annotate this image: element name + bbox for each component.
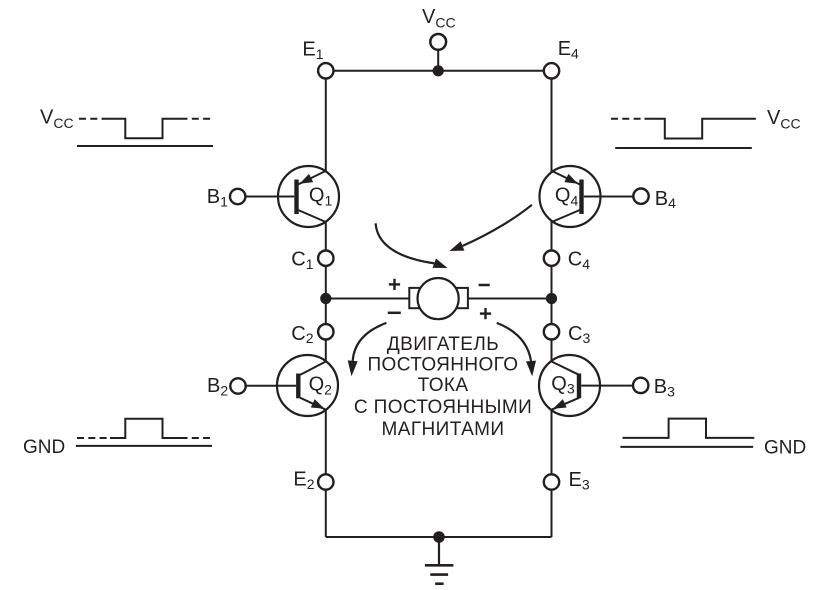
motor M1 body [418, 278, 459, 319]
annotation arrow curved left of text [348, 323, 387, 376]
terminal C2 [318, 324, 333, 339]
wire motor to right node [467, 298, 552, 300]
power Vcc terminal [430, 34, 446, 50]
annotation arrow upper left to motor [376, 223, 448, 268]
waveform GND right [620, 419, 754, 447]
wire left node to motor [326, 298, 410, 300]
svg-text:B2: B2 [207, 375, 228, 398]
junction ground node [433, 531, 445, 543]
motor M1 right brush tab [453, 288, 468, 308]
terminal B2 [230, 378, 245, 393]
wire right vertical Q3 to bottom rail through E3 [551, 410, 553, 537]
junction left motor node [320, 293, 331, 304]
junction Vcc node [433, 65, 444, 76]
svg-text:E2: E2 [293, 469, 314, 492]
wire left vertical Q2 to bottom rail through E2 [325, 410, 327, 537]
terminal B4 [633, 189, 648, 204]
wire Vcc stem [437, 50, 439, 71]
svg-text:VCC: VCC [40, 106, 74, 131]
svg-text:Q4: Q4 [555, 185, 579, 209]
terminal B3 [633, 378, 648, 393]
annotation arrow from Q4 to motor [450, 205, 532, 251]
svg-text:C1: C1 [291, 249, 313, 272]
svg-text:B3: B3 [654, 376, 675, 399]
svg-text:ТОКА: ТОКА [418, 375, 469, 396]
wire left vertical E1 to Q1 [325, 71, 327, 171]
waveform Vcc right [611, 119, 756, 148]
motor M1 left brush tab [409, 288, 423, 308]
svg-text:E1: E1 [302, 39, 323, 62]
wire right vertical E4 to Q4 [551, 71, 553, 172]
wire top rail E1 to E4 [326, 70, 552, 72]
waveform Vcc left [77, 119, 213, 146]
transistor Q4 [540, 166, 634, 227]
terminal C4 [544, 251, 559, 266]
svg-text:С ПОСТОЯННЫМИ: С ПОСТОЯННЫМИ [354, 397, 532, 418]
transistor Q1 [245, 166, 339, 227]
terminal E2 [318, 474, 333, 489]
svg-text:Q2: Q2 [309, 374, 333, 398]
label motor minus right [479, 284, 490, 287]
svg-text:ДВИГАТЕЛЬ: ДВИГАТЕЛЬ [387, 334, 499, 355]
wire bottom rail E2 to E3 [326, 536, 552, 538]
terminal E1 [318, 63, 333, 78]
wire left vertical Q1 to Q2 through C1 node and C2 [325, 222, 327, 362]
terminal E4 [544, 63, 559, 78]
svg-text:Q3: Q3 [551, 373, 575, 397]
svg-text:B4: B4 [655, 188, 676, 211]
svg-text:VCC: VCC [767, 107, 801, 132]
waveform GND left [76, 419, 212, 446]
svg-text:GND: GND [23, 437, 65, 458]
transistor Q3 [539, 355, 633, 416]
svg-text:E4: E4 [558, 38, 579, 61]
ground [425, 537, 454, 584]
svg-text:МАГНИТАМИ: МАГНИТАМИ [382, 419, 505, 440]
svg-text:B1: B1 [207, 186, 228, 209]
terminal B1 [230, 189, 245, 204]
transistor Q2 [246, 355, 338, 416]
label motor minus left [388, 312, 401, 315]
svg-text:C2: C2 [291, 323, 313, 346]
label motor plus left [389, 279, 400, 290]
svg-text:C3: C3 [568, 323, 590, 346]
svg-text:C4: C4 [568, 249, 590, 272]
svg-text:Q1: Q1 [309, 185, 333, 209]
svg-text:ПОСТОЯННОГО: ПОСТОЯННОГО [368, 355, 519, 376]
svg-text:E3: E3 [569, 469, 590, 492]
junction right motor node [546, 293, 557, 304]
terminal C1 [318, 251, 333, 266]
terminal E3 [544, 474, 559, 489]
terminal C3 [544, 324, 559, 339]
svg-text:GND: GND [764, 438, 806, 459]
label motor text block [354, 334, 532, 440]
annotation arrow curved right of text [497, 323, 536, 377]
label motor plus right [480, 308, 491, 319]
svg-text:VCC: VCC [422, 6, 456, 31]
wire right vertical Q4 to Q3 through C4 node and C3 [551, 221, 553, 361]
